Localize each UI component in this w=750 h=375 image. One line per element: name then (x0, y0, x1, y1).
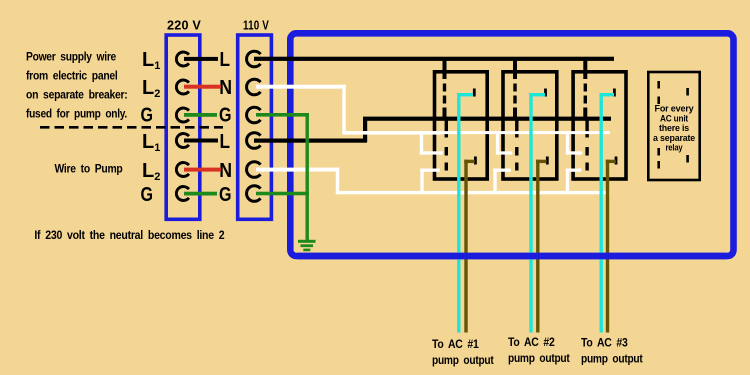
svg-text:To AC #1: To AC #1 (432, 339, 479, 351)
relay K3 coil ticks (613, 89, 616, 97)
terminal strip 110V (blue) (238, 35, 272, 219)
pump neutral bus y192 (white) (336, 191, 610, 194)
link wire L2-N row5 (red) (184, 168, 221, 172)
pump neutral row5 (white) (256, 168, 339, 172)
svg-text:relay: relay (666, 143, 684, 154)
relay K3 lower contact (585, 118, 588, 138)
pump L wire row4 (black) (254, 139, 367, 143)
AC#3 signal wire (cyan) (600, 93, 603, 333)
relay K1 coil ticks (473, 89, 476, 97)
pump neutral drop at x337 (white) (336, 168, 339, 195)
AC#1 return wire (tan) (464, 160, 467, 333)
relay K2 coil ticks (544, 89, 547, 97)
pump L riser at x365 (363, 118, 367, 142)
relay enclosure box (blue) (290, 33, 733, 256)
link wire G-G row6 (green) (184, 192, 217, 196)
AC#2 return wire (tan) (536, 160, 539, 333)
svg-text:G: G (141, 184, 154, 206)
pump hot bus wire (black, mid) (363, 117, 611, 121)
ground riser x307 (green) (306, 113, 309, 240)
white jog down to K1 (420, 131, 423, 155)
terminal circles 110V strip (247, 51, 261, 201)
blue box bottom border redrawn over wires (297, 253, 727, 260)
svg-text:on separate breaker:: on separate breaker: (26, 90, 128, 102)
svg-text:pump output: pump output (508, 353, 570, 365)
terminal circles 220V strip (176, 52, 189, 201)
svg-text:Wire to Pump: Wire to Pump (55, 164, 123, 176)
relay K1 box (435, 72, 488, 179)
svg-text:220 V: 220 V (167, 18, 201, 33)
neutral bus y133 (white) (342, 131, 440, 135)
svg-text:pump output: pump output (432, 355, 494, 367)
svg-text:To AC #2: To AC #2 (508, 337, 555, 349)
svg-text:L: L (220, 131, 231, 153)
svg-text:G: G (141, 105, 154, 127)
link wire G-G row3 (green) (184, 113, 217, 117)
dashed separator line (40, 126, 223, 129)
relay K1 lower contact (445, 118, 448, 138)
svg-text:If 230 volt the neutral become: If 230 volt the neutral becomes line 2 (34, 230, 224, 242)
svg-text:from electric panel: from electric panel (26, 71, 118, 83)
AC#1 signal wire (cyan) (457, 93, 460, 333)
AC#3 return wire (tan) (606, 160, 609, 333)
link wire L2-N row2 (red) (184, 85, 221, 89)
neutral drop at x344 (white) (342, 85, 345, 134)
svg-text:G: G (219, 184, 232, 206)
relay K2 box (503, 72, 557, 179)
ground wire row3 (green) (256, 113, 309, 117)
svg-text:110 V: 110 V (243, 18, 269, 33)
relay K3 box (573, 72, 626, 179)
link wire L1-L row4 (black) (184, 139, 218, 143)
svg-text:pump output: pump output (581, 354, 643, 366)
svg-text:G: G (219, 105, 232, 127)
neutral wire row2 (white) (256, 85, 346, 89)
relay K1 contact: drop from top bus (443, 57, 447, 79)
AC#2 signal wire (cyan) (529, 93, 532, 333)
white branch up to K1 (420, 169, 423, 193)
white branch up to K2 (493, 169, 496, 193)
note box: for every AC unit (648, 72, 699, 180)
svg-text:Power supply wire: Power supply wire (26, 52, 116, 64)
white jog down to K2 (496, 131, 499, 155)
svg-text:N: N (219, 160, 232, 182)
svg-text:fused for pump only.: fused for pump only. (26, 109, 127, 121)
svg-text:To AC #3: To AC #3 (581, 338, 628, 350)
white branch up to K3 (566, 169, 569, 193)
ground wire row6 (green) (256, 192, 309, 196)
svg-text:L: L (220, 49, 231, 71)
terminal strip 220V (blue) (166, 35, 200, 219)
relay K3 contact: drop from top bus (583, 57, 587, 79)
white jog down to K3 (566, 131, 569, 155)
note box contact tick marks (657, 81, 660, 89)
ground symbol (298, 240, 316, 243)
relay K2 contact: drop from top bus (513, 57, 517, 79)
relay K2 lower contact (515, 118, 518, 138)
link wire L1-L row1 (black) (184, 57, 218, 61)
svg-text:N: N (219, 77, 232, 99)
top hot bus wire (black, from 110V L) (254, 57, 614, 61)
